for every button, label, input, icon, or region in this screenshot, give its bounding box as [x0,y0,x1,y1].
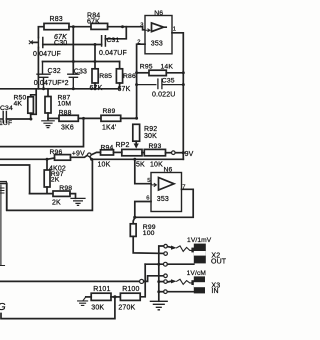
svg-text:2K: 2K [51,177,60,184]
bottom wire [1,297,115,319]
vertical to R100 [140,264,145,297]
R92 wiper arrow into RP2 [135,141,137,146]
connector X2 [191,248,195,253]
svg-text:353: 353 [157,196,169,203]
svg-text:1UF: 1UF [0,120,12,127]
switch lower row [164,290,168,294]
resistor R85 [94,62,96,69]
node junction R83/R84 [72,25,75,28]
svg-text:R85: R85 [99,73,112,80]
resistor R83 [44,23,69,29]
wire C30 down to rail [37,48,39,89]
resistor R94 [101,150,114,155]
svg-text:1K4': 1K4' [102,125,116,132]
svg-text:270K: 270K [118,305,135,312]
wire R83 left [38,27,44,38]
svg-text:R101: R101 [93,286,110,293]
capacitor C30 [38,38,42,48]
resistor R88 [59,115,78,121]
wire pin7 feedback [135,189,193,217]
svg-text:10K: 10K [98,161,111,168]
node dots on y61.5 [72,60,75,63]
svg-text:IN: IN [211,288,218,295]
svg-text:N6: N6 [154,10,163,17]
wire C31 right riser [105,27,126,39]
resistor R99 [133,217,135,223]
ground under switches [150,301,167,310]
terminal circle 9V [172,151,176,155]
resistor R86 [119,62,121,69]
node junction C31 riser [121,25,124,28]
wire row to X2 lower [145,263,163,265]
svg-text:G: G [0,301,6,313]
svg-text:N6: N6 [164,166,173,173]
svg-text:1V/1mV: 1V/1mV [187,237,212,244]
resistor R50 [31,89,37,115]
svg-text:5K: 5K [136,161,145,168]
wire C30 to node A [43,44,95,46]
ground under R87 [42,121,54,128]
op-amp U6b box [151,173,182,212]
svg-text:0.022U: 0.022U [152,91,175,98]
resistor R93 [142,152,144,154]
svg-text:R89: R89 [103,108,116,115]
svg-text:RP2: RP2 [116,142,130,149]
resistor R96 [55,155,71,161]
svg-text:10K: 10K [150,161,163,168]
svg-text:1: 1 [173,26,176,32]
svg-text:67K: 67K [87,19,100,26]
op-amp U6a triangle [152,23,167,32]
long wire B2 [0,158,47,160]
resistor R87 [47,89,49,97]
resistor R101 [91,293,111,300]
wire R89 right [121,117,137,119]
input terminal tick [29,41,32,44]
wire pin5 [135,159,151,183]
resistor R89 [101,115,121,121]
svg-text:0.047UF*2: 0.047UF*2 [34,80,69,87]
potentiometer RP2 [122,149,142,155]
svg-text:R96: R96 [50,149,63,156]
ground at R101 left [86,296,91,298]
wire R97 bottom / R98 [30,193,53,195]
resistor R92 [133,124,140,141]
wire R88-R89 [78,117,101,119]
S2 arm [168,280,172,283]
connector X3 [191,280,195,285]
svg-text:R83: R83 [50,16,63,23]
resistor R97 [46,159,48,170]
svg-text:30K: 30K [91,305,104,312]
svg-text:C34: C34 [0,105,13,112]
svg-text:R93: R93 [149,143,162,150]
wire pin1 out [172,33,183,160]
wire C30 left lead [31,41,38,43]
svg-text:C33: C33 [74,69,87,76]
vertical switch common down to ground [158,264,160,301]
S1 upper contact stub [159,246,164,264]
node A dot [94,43,97,46]
svg-text:9V: 9V [185,151,194,158]
op-amp U6b triangle [159,178,175,191]
svg-text:2K: 2K [52,200,61,207]
svg-text:10M: 10M [58,101,72,108]
main rail y88.8 [0,88,120,90]
resistor R84 [91,23,108,29]
resistor R98 [53,191,70,196]
wire R99 to switch [133,236,163,253]
resistor R95 [137,72,149,74]
wire node A down [94,45,96,62]
svg-text:0.047UF: 0.047UF [99,50,127,57]
svg-text:30K: 30K [144,133,157,140]
capacitor C34 [0,112,6,123]
wire R83-R84 [69,26,91,28]
wire pin2 [137,44,145,118]
lower wire y159.3 [92,158,184,160]
svg-text:R88: R88 [59,109,72,116]
capacitor C35 [137,79,184,89]
wire R101-R100 [111,296,120,298]
pin5 arrow inside [152,183,156,186]
resistor R100 [120,293,140,300]
capacitor C31 [102,36,106,46]
capacitor C32 [37,62,50,89]
wire R87 to R88 [48,117,59,119]
switch S1 contacts [164,244,168,248]
G wire [0,280,139,282]
S1 arm [168,246,172,249]
svg-text:100: 100 [143,230,155,237]
left edge partial box [0,181,6,265]
pin3 arrow inside [146,29,150,32]
wire top of C32 to R86 [43,61,120,63]
wire R93 to 9V terminal [166,152,172,154]
op-amp U6a box [145,16,172,54]
svg-text:0.047UF: 0.047UF [33,51,61,58]
svg-text:4K: 4K [14,101,23,108]
capacitor C33 [68,74,79,89]
wire R83/R84 junction down to C33 [72,27,74,74]
wire C31 left lead [95,44,102,46]
svg-text:353: 353 [151,40,163,47]
svg-text:C30: C30 [54,40,67,47]
svg-text:R94: R94 [101,144,114,151]
svg-text:1V/cM: 1V/cM [187,270,206,277]
wire to C34 [6,118,31,120]
long wire B3 [0,165,30,194]
svg-text:R98: R98 [59,185,72,192]
svg-text:R86: R86 [123,73,136,80]
wire pin6 [135,202,151,218]
long wire B1 [0,118,84,146]
svg-text:+9V: +9V [72,150,85,157]
svg-text:14K: 14K [161,63,174,70]
svg-text:C31: C31 [107,37,120,44]
svg-text:3K6: 3K6 [61,125,74,132]
svg-text:3: 3 [140,23,143,29]
node R50 bottom [29,118,32,121]
wire R84 to pin3 [108,27,145,30]
switch S2 contacts [164,274,168,278]
svg-text:C35: C35 [162,78,175,85]
ground under R98 [71,198,85,205]
node junction R88/R89 [82,117,85,120]
svg-text:C32: C32 [48,68,61,75]
svg-text:R95: R95 [140,63,153,70]
svg-text:R100: R100 [122,286,139,293]
wire loop P from left edge to +9V [0,159,92,210]
svg-text:OUT: OUT [211,258,227,265]
